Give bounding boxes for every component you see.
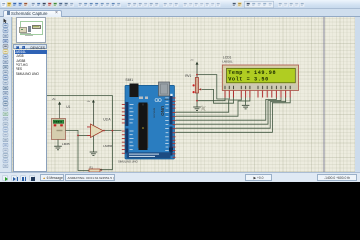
LCD pin label strip [223, 84, 297, 89]
input pin stubs [87, 126, 91, 129]
power jack [130, 84, 139, 98]
op-amp V- pin to ground [92, 136, 94, 153]
wire +5V to LCD VDD [197, 75, 229, 99]
sensor U1 LM35 body [52, 119, 66, 140]
left pin stubs [122, 104, 125, 154]
left pin header strips [125, 102, 128, 126]
tab bar [0, 9, 360, 17]
USB connector [159, 82, 170, 96]
wire op-amp OUT to Arduino [103, 130, 122, 132]
overview panel [16, 17, 46, 43]
right pin stubs [173, 98, 176, 158]
LCD pin stubs [225, 91, 291, 98]
wire D to LCD D4 [176, 98, 277, 121]
board bottom caption [127, 152, 171, 158]
LM35 display [53, 120, 63, 123]
svg-text:Temp = 149.98: Temp = 149.98 [228, 70, 276, 76]
wire long feedback net to left [47, 94, 113, 96]
canvas grid [12, 17, 355, 172]
wire branch to op-amp +IN [78, 134, 91, 136]
right pin header strip [170, 96, 173, 125]
wire D to LCD D6 [176, 98, 286, 129]
pin1 marker [170, 94, 172, 97]
LCD screen [227, 68, 296, 83]
wire LM35 VOUT [66, 130, 90, 170]
svg-text:LM358: LM358 [103, 144, 113, 148]
RV1 wiper arrow [199, 88, 202, 90]
ground (op-amp) [90, 152, 98, 156]
power +5V arrow (LM35) [58, 102, 61, 119]
wire LCD VSS to pot ground rail [197, 98, 225, 101]
potentiometer RV1 body [195, 78, 198, 94]
wire LCD RW to ground [245, 98, 247, 106]
svg-text:Volt = 3.50: Volt = 3.50 [228, 77, 269, 83]
left inner white labels [130, 104, 134, 154]
black bottom strip [0, 182, 360, 203]
chip pins [138, 104, 148, 148]
Arduino SIM1 board [125, 85, 175, 159]
svg-text:+5v: +5v [87, 101, 91, 103]
left toolbar [0, 17, 12, 172]
right inner white labels [165, 98, 169, 158]
svg-text:R1: R1 [90, 165, 94, 169]
svg-text:U3:A: U3:A [103, 118, 111, 122]
svg-text:SIMULINO.UNO: SIMULINO.UNO [118, 160, 138, 164]
node junction [100, 169, 102, 171]
ground (RV1) [193, 107, 201, 111]
RV1 buttons [193, 84, 195, 86]
power +5V arrow (op-amp) [92, 100, 95, 126]
wire LM35 GND pin [57, 140, 59, 147]
wire RV1 wiper to LCD VEE [202, 89, 234, 103]
svg-text:UNO: UNO [160, 106, 165, 116]
wire D to LCD D5 [176, 98, 282, 125]
devices header [13, 44, 47, 50]
devices list [13, 50, 47, 173]
svg-text:ARDUINO: ARDUINO [153, 108, 156, 118]
svg-text:LM016L: LM016L [222, 59, 233, 63]
wire R1 to feedback riser [100, 95, 112, 169]
wire D to LCD E [176, 98, 250, 117]
MCU chip [139, 103, 148, 151]
svg-text:AREF: AREF [165, 98, 171, 101]
LM35 buttons [54, 124, 57, 126]
LCD pin labels [225, 86, 291, 89]
ground (LCD) [242, 105, 250, 109]
ground (LM35) [54, 146, 62, 150]
wire D to LCD RS [176, 98, 242, 113]
svg-text:RV1: RV1 [185, 74, 191, 78]
svg-text:+5v: +5v [52, 99, 57, 101]
sheet border [323, 17, 325, 172]
LCD LM016L body [222, 65, 298, 91]
svg-text:SIM1: SIM1 [125, 78, 133, 82]
no-connect marker [201, 106, 206, 111]
top toolbar [0, 0, 360, 9]
svg-text:+5v: +5v [190, 60, 194, 62]
svg-text:LM35: LM35 [62, 142, 70, 146]
arduino logo [155, 99, 161, 102]
status bar [0, 172, 360, 182]
op-amp U3:A [91, 124, 104, 138]
svg-text:U1: U1 [66, 105, 70, 109]
resistor R1 [89, 169, 100, 172]
ICSP block [169, 148, 173, 152]
wire RV1 bottom to ground [196, 93, 198, 107]
wire D to LCD D7 [176, 98, 291, 133]
